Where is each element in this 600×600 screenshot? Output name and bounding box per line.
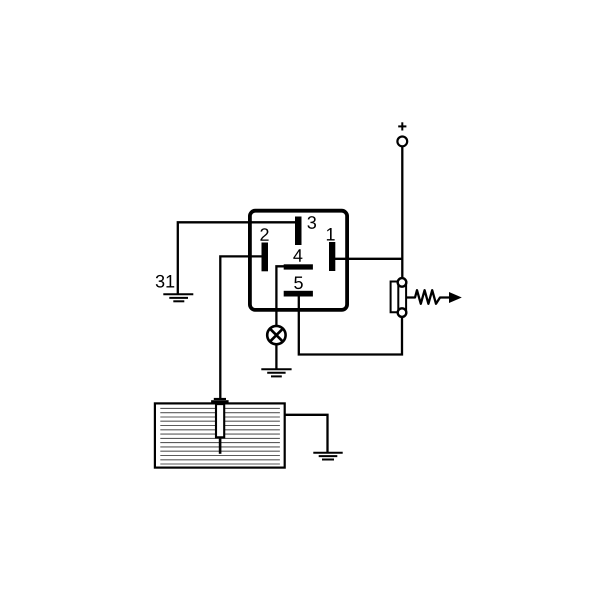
ground right of tank (313, 453, 342, 460)
tank fuel level hatch lines (160, 408, 280, 464)
relay pin 4 terminal (284, 264, 313, 269)
switch contact bridge (398, 282, 406, 313)
relay pin 3 terminal (295, 217, 302, 246)
fuel pump / sender unit in tank (211, 398, 229, 454)
wire switch to pin 5 (299, 296, 402, 355)
wire tank to ground (284, 415, 328, 453)
wire + terminal to switch (401, 147, 403, 277)
switch bottom contact circle (398, 308, 407, 317)
wire lamp to ground (275, 345, 277, 370)
switch bracket (391, 282, 397, 313)
pump body (216, 404, 224, 437)
fuel tank (155, 403, 285, 467)
label pin 2 (260, 228, 268, 241)
pump rod (219, 438, 222, 453)
wire pin 3 to ground 31 (178, 222, 296, 294)
ground 31 (163, 294, 193, 301)
label pin 5 (294, 277, 303, 290)
battery + supply terminal (397, 137, 407, 147)
label pin 1 (327, 228, 335, 240)
switch actuator spring (407, 290, 450, 304)
label + (398, 122, 406, 130)
wire pin 2 to fuel pump (220, 256, 263, 398)
label pin 3 (307, 216, 316, 229)
wire pin 4 to lamp (276, 266, 284, 325)
relay pin 5 terminal (284, 291, 313, 297)
lamp H (warning lamp) (267, 326, 285, 344)
pump cap upper (214, 398, 226, 400)
pump cap lower (211, 400, 229, 403)
relay pin 1 terminal (329, 242, 335, 271)
switch S (impact/inertia switch) (391, 278, 462, 317)
switch top contact circle (398, 278, 407, 287)
label 31 (156, 275, 174, 288)
relay K (5-pin relay outline) (250, 211, 347, 310)
ground below lamp (261, 369, 291, 376)
relay pin 2 terminal (262, 243, 269, 272)
switch actuator arrow (449, 292, 462, 303)
label pin 4 (293, 249, 302, 261)
wire pin 1 to supply line (T junction) (334, 258, 402, 260)
